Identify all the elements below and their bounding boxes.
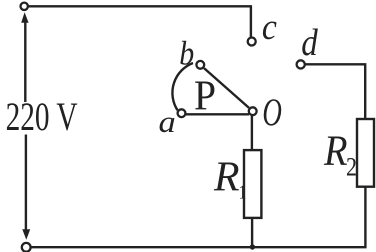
- svg-text:P: P: [194, 73, 216, 119]
- svg-text:c: c: [262, 7, 278, 48]
- wire R1 bottom to bottom bus: [251, 218, 253, 247]
- wire blade a to O: [186, 113, 249, 115]
- 220V arrowhead down: [22, 229, 30, 240]
- contact b: [196, 61, 204, 69]
- contact d: [297, 60, 305, 68]
- svg-text:220 V: 220 V: [6, 94, 78, 139]
- wire top bus from left terminal to contact c: [28, 6, 251, 37]
- arc rotation path a to b: [172, 63, 193, 110]
- 220V arrow shaft upper: [24, 20, 26, 102]
- pivot O: [249, 107, 257, 115]
- svg-text:a: a: [159, 104, 176, 139]
- resistor R1: [244, 150, 261, 218]
- svg-text:b: b: [179, 35, 194, 72]
- svg-text:R: R: [323, 127, 347, 175]
- resistor R2: [357, 119, 374, 187]
- contact c: [248, 38, 256, 46]
- wire O to R1 top: [251, 115, 253, 150]
- svg-text:1: 1: [239, 183, 247, 204]
- contact a: [178, 109, 186, 117]
- svg-text:d: d: [301, 22, 318, 64]
- wire bottom bus from left terminal to R2 branch: [31, 187, 366, 248]
- svg-text:O: O: [262, 91, 282, 134]
- 220V arrowhead up: [21, 12, 28, 22]
- svg-text:R: R: [213, 154, 240, 201]
- terminal bottom-left: [22, 243, 31, 252]
- wire blade b to O: [204, 68, 249, 108]
- wire contact d to R2 top corner: [305, 64, 365, 119]
- svg-text:2: 2: [346, 153, 357, 182]
- terminal top-left: [21, 3, 28, 10]
- junction node R1 bottom bus: [250, 244, 255, 249]
- 220V arrow shaft lower: [25, 135, 27, 232]
